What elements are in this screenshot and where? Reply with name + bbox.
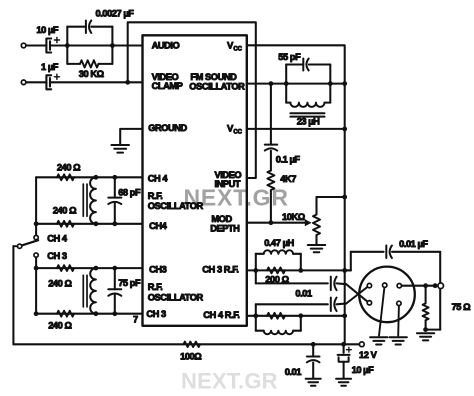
svg-text:200 Ω: 200 Ω (265, 274, 289, 284)
svg-text:R.F.: R.F. (148, 282, 163, 292)
svg-text:0.0027 µF: 0.0027 µF (96, 9, 135, 19)
svg-text:68 pF: 68 pF (118, 187, 141, 197)
svg-text:10KΩ: 10KΩ (282, 212, 306, 222)
svg-text:240 Ω: 240 Ω (53, 206, 77, 216)
svg-text:75 pF: 75 pF (118, 278, 141, 288)
svg-text:4K7: 4K7 (280, 174, 296, 184)
svg-text:10 µF: 10 µF (36, 25, 58, 35)
svg-text:OSCILLATOR: OSCILLATOR (148, 201, 204, 211)
svg-text:0.1 µF: 0.1 µF (276, 155, 301, 165)
svg-text:75 Ω: 75 Ω (452, 302, 472, 312)
svg-text:0.01: 0.01 (285, 367, 302, 377)
svg-text:12 V: 12 V (359, 350, 378, 360)
svg-text:0.01 µF: 0.01 µF (399, 239, 428, 249)
svg-text:1 µF: 1 µF (41, 62, 59, 72)
svg-text:AUDIO: AUDIO (152, 41, 180, 51)
svg-text:10 µF: 10 µF (352, 365, 374, 375)
svg-text:30 KΩ: 30 KΩ (79, 69, 105, 79)
svg-text:23 µH: 23 µH (297, 116, 320, 126)
svg-text:CH 4: CH 4 (47, 234, 68, 244)
svg-text:CH 3: CH 3 (47, 251, 67, 261)
svg-text:CH 4: CH 4 (148, 174, 169, 184)
svg-text:R.F.: R.F. (148, 191, 163, 201)
svg-text:0.47 µH: 0.47 µH (264, 238, 294, 248)
svg-text:CH 3: CH 3 (146, 309, 166, 319)
svg-text:CH 4 R.F.: CH 4 R.F. (203, 310, 239, 320)
svg-text:OSCILLATOR: OSCILLATOR (148, 293, 204, 303)
svg-text:100Ω: 100Ω (180, 352, 202, 362)
svg-text:240 Ω: 240 Ω (57, 163, 81, 173)
svg-text:NEXT.GR: NEXT.GR (181, 369, 278, 394)
svg-text:55 pF: 55 pF (278, 52, 301, 62)
svg-text:FM SOUND: FM SOUND (190, 72, 237, 82)
svg-text:INPUT: INPUT (215, 179, 241, 189)
svg-text:0.01: 0.01 (295, 288, 312, 298)
svg-text:7: 7 (133, 315, 138, 325)
svg-text:CH3: CH3 (149, 265, 167, 275)
svg-text:OSCILLATOR: OSCILLATOR (189, 81, 245, 91)
svg-text:CLAMP: CLAMP (152, 81, 183, 91)
svg-text:240 Ω: 240 Ω (48, 278, 72, 288)
svg-text:240 Ω: 240 Ω (48, 321, 72, 331)
svg-text:CH 3 R.F.: CH 3 R.F. (202, 265, 238, 275)
svg-text:GROUND: GROUND (148, 123, 187, 133)
svg-text:CH4: CH4 (149, 221, 168, 231)
svg-text:DEPTH: DEPTH (210, 223, 240, 233)
